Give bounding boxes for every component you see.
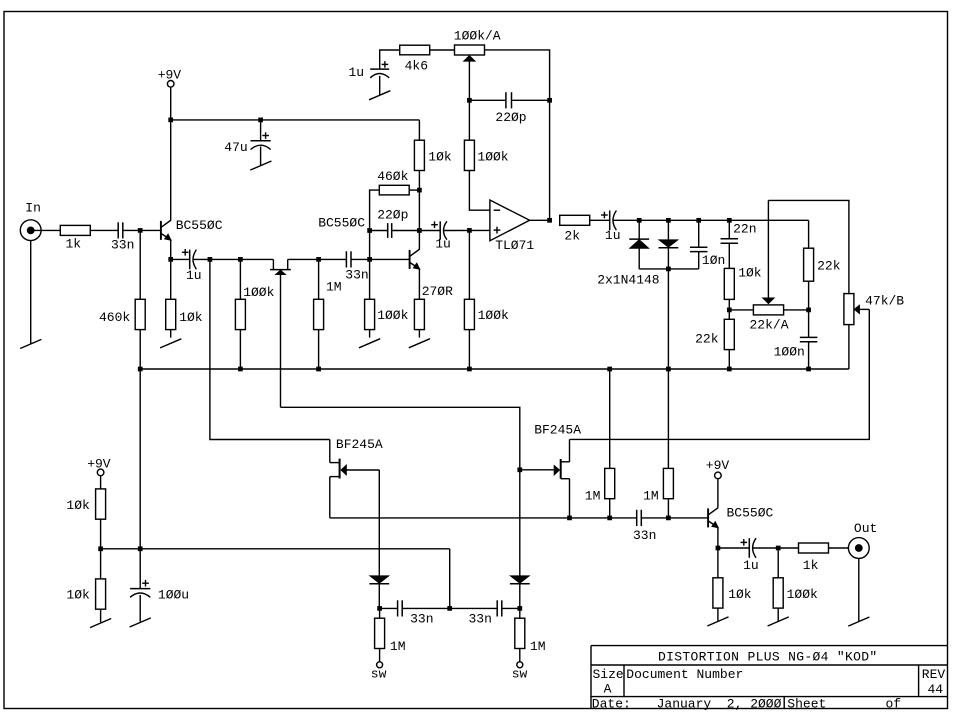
resistor 10k collector load [414,140,424,170]
svg-text:1k: 1k [803,558,819,573]
svg-text:33n: 33n [345,267,368,282]
ground 100k Q2 base [359,339,380,348]
svg-text:1ØØk: 1ØØk [478,308,509,323]
svg-text:Document Number: Document Number [626,667,743,682]
terminal sw right [512,662,528,682]
capacitor 220p feedback [387,223,389,238]
svg-text:A: A [604,682,612,697]
potentiometer 100k/A body [455,45,485,55]
wire 270R to ground [418,330,420,338]
svg-text:1M: 1M [585,489,601,504]
node junction J2 source [567,516,572,521]
node junction rail 460k [138,367,143,372]
resistor 1M sw right [515,608,525,661]
capacitor 1u output [718,538,756,558]
diode D1 1N4148 [638,220,640,239]
capacitor 22n [721,220,739,268]
wire 1k to C 33n [90,229,118,231]
wire 22k lower stubs [728,310,730,319]
wire +9V rail top [171,119,420,121]
wire clipping net [613,219,808,221]
svg-text:1ØØk: 1ØØk [377,308,408,323]
svg-text:47u: 47u [224,140,247,155]
wire tone pot right stub [784,309,809,311]
resistor 10k divider top [96,489,106,519]
node junction sw mid [447,606,452,611]
connector In [20,220,41,241]
svg-text:1ØØk: 1ØØk [243,285,274,300]
svg-text:BC55ØC: BC55ØC [727,505,774,520]
wire 22k/A wiper to 47k/B top [768,200,849,293]
resistor 4k6 [400,45,430,55]
svg-text:1Øk: 1Øk [738,266,762,281]
diode D2 1N4148 [667,220,669,239]
wire 33n to mid [402,607,450,609]
svg-text:1u: 1u [605,228,621,243]
pot 100k/A wiper arrow [463,55,475,100]
svg-text:1k: 1k [66,237,82,252]
capacitor 1u bias top [370,61,389,95]
node junction 220p left [367,228,372,233]
transistor J2 BF245A [554,439,570,518]
wire bias rail [140,368,849,370]
svg-text:TLØ71: TLØ71 [495,238,534,253]
op-amp U1 TL071 [490,200,530,241]
svg-text:1Øn: 1Øn [702,253,725,268]
svg-text:1Øk: 1Øk [66,588,90,603]
resistor 22k tone upper [804,220,814,310]
node junction diode net rail [666,367,671,372]
node junction 220p right [547,98,552,103]
resistor 270R emitter [414,299,424,329]
svg-text:1u: 1u [349,65,365,80]
resistor 1M drain right [663,468,673,518]
svg-text:1ØØk/A: 1ØØk/A [454,29,501,44]
power +9V supply 2 [706,458,730,507]
svg-text:BC55ØC: BC55ØC [318,215,365,230]
node junction Q1 base / 460k [138,228,143,233]
svg-text:22n: 22n [733,222,756,237]
resistor 2k [560,215,590,225]
node junction 1M right bottom [666,516,671,521]
wire divider tap run [101,548,450,550]
node junction op-amp output [547,218,552,223]
wire op-amp minus input [469,171,490,211]
wire J2 gate [520,469,554,471]
svg-text:BF245A: BF245A [336,437,383,452]
svg-text:January 2, 2ØØØ: January 2, 2ØØØ [657,697,782,712]
wire 220p right stub [392,230,420,232]
svg-text:sw: sw [512,666,528,681]
title block frame [591,646,948,709]
wire 1u to op-amp plus [444,229,490,231]
node junction 1M top [316,257,321,262]
transistor Q2 BC550C [409,250,411,269]
svg-text:1u: 1u [186,268,202,283]
wire 460k/220p left leg [370,190,380,259]
wire node to inline diode [240,258,273,260]
power +9V supply 3 [87,457,111,489]
wire 220p top right stub [512,99,550,101]
node junction J2 gate [517,467,522,472]
svg-text:1ØØk: 1ØØk [787,587,818,602]
capacitor 47u [251,120,271,165]
svg-text:22Øp: 22Øp [377,208,408,223]
svg-text:460k: 460k [99,310,130,325]
wire 220p right up to pot [485,50,550,100]
resistor 100k emitter net [235,259,245,369]
capacitor 33n sw left [397,600,399,616]
resistor 22k tone lower [724,319,734,349]
wire In to R 1k [31,229,61,231]
node junction Q2 collector net [417,228,422,233]
ground 100k output [768,617,789,626]
potentiometer 47k/B volume [844,294,854,325]
wire 10k top to +9V rail [418,120,420,140]
svg-text:1M: 1M [390,639,406,654]
ground wire Out [858,558,860,621]
svg-text:of: of [886,697,902,712]
resistor 10k tone [724,268,734,299]
node junction Q2 base [367,257,372,262]
diode inline bias [270,259,291,407]
svg-text:Date:: Date: [592,697,631,712]
node junction minus net / 220p [467,98,472,103]
ground In [20,339,41,348]
wire source net [330,517,637,519]
node junction bias tap [208,257,213,262]
svg-text:47k/B: 47k/B [865,294,904,309]
svg-text:Size: Size [593,667,624,682]
node junction diode bottom [666,267,671,272]
ground Out [848,617,869,626]
wire inline diode to 1M [288,258,319,260]
ground 10k Q1 emitter [160,339,181,348]
svg-text:2k: 2k [564,228,580,243]
resistor 460k base bias [135,299,145,329]
resistor 10k output [713,548,723,621]
capacitor 10n [690,220,708,269]
resistor 1k input [60,225,90,235]
ground 10k output [707,617,728,626]
capacitor 33n input [117,222,119,238]
node junction 10n [696,218,701,223]
node junction tone pot right [806,308,811,313]
resistor 1M drain left [605,369,615,518]
wire Q2 collector up [418,171,420,250]
resistor 1M emitter net [314,259,324,369]
wire 1M to 33n [319,258,347,260]
wire tone pot left stub [729,309,753,311]
wire op-amp output [530,219,550,221]
capacitor 33n output coupling [636,510,638,526]
transistor Q3 BC550C [707,508,709,527]
wire J1 gate down to D3 [378,470,380,576]
svg-text:1ØØn: 1ØØn [774,345,805,360]
svg-text:4k6: 4k6 [405,58,428,73]
node junction 100k top [238,257,243,262]
wire 10k tone bottom [728,299,730,310]
svg-text:44: 44 [928,682,944,697]
svg-text:1M: 1M [530,639,546,654]
svg-text:1Øk: 1Øk [179,310,203,325]
svg-text:33n: 33n [111,238,134,253]
capacitor 100u [130,549,150,622]
wire Q2 emitter [418,269,420,299]
svg-text:33n: 33n [410,612,433,627]
capacitor 33n sw right [496,600,498,616]
connector Out [848,538,869,559]
node junction 460k right [417,188,422,193]
wire 33n right to D4 [502,607,520,609]
svg-text:+9V: +9V [706,458,730,473]
wire 1u to 100k node [753,547,778,549]
wire J2 gate down to D4 [519,470,521,576]
node junction tone pot left [727,308,732,313]
svg-text:sw: sw [371,666,387,681]
wire 1u to node [193,258,210,260]
wire 2k right [590,219,610,221]
svg-text:46Øk: 46Øk [377,169,408,184]
wire Q1 collector [170,120,172,220]
capacitor 1u emitter [171,249,197,269]
capacitor 1u output of op-amp [601,211,616,231]
wire 47k/B wiper down [570,309,870,439]
diode D4 switch [519,575,521,577]
wire 460k bottom to rail [139,330,141,369]
svg-text:BC55ØC: BC55ØC [176,218,223,233]
ground 1u bias top [369,91,390,100]
wire 33n to Q1 base [123,229,161,231]
node junction 22k lower rail [727,367,732,372]
node junction D1 [637,218,642,223]
pot 22k/A wiper arrow [762,200,774,303]
node junction Q3 emitter [716,546,721,551]
resistor 100k Q2 base bias [365,259,375,337]
wire output up to 220p [549,100,551,220]
svg-text:BF245A: BF245A [534,422,581,437]
transistor Q1 BC550C [160,221,162,240]
resistor 10k divider bottom [96,549,106,622]
pot 47k/B wiper arrow [854,305,869,314]
wire J1 gate [347,469,380,471]
svg-text:Sheet: Sheet [787,697,826,712]
svg-text:33n: 33n [469,612,492,627]
wire 4k6 to pot [430,49,455,51]
wire 460k top stub [139,230,141,299]
svg-text:1Øk: 1Øk [428,150,452,165]
ground 270R [409,339,430,348]
wire 220p left stub [370,230,388,232]
ground wire In connector [30,241,32,344]
wire 33n to Q2 base [351,258,410,260]
node junction D4 bottom [517,606,522,611]
node junction rail 100k [238,367,243,372]
node junction 100n rail [806,367,811,372]
wire 10k divider to node [100,519,102,549]
svg-text:22k/A: 22k/A [750,317,789,332]
resistor 1M sw left [375,608,385,661]
wire 33n to Q3 base [641,517,708,519]
power +9V supply 1 [158,67,182,120]
node junction divider tap [98,546,103,551]
svg-text:1M: 1M [326,279,342,294]
capacitor 220p integrator [505,92,507,108]
ground below 47u [250,161,271,170]
svg-text:1ØØu: 1ØØu [158,588,189,603]
node junction 22n [727,218,732,223]
svg-text:1u: 1u [435,237,451,252]
wire Q3 emitter [717,528,719,549]
wire 47k/B bottom to rail [848,325,850,369]
node junction rail 1M [316,367,321,372]
wire 100k minus top [468,100,470,140]
node junction 100u top [138,546,143,551]
wire rail down to divider [139,369,141,549]
wire 4k6 left leg [380,50,400,69]
node junction op-amp plus / 100k [467,228,472,233]
ground 10k divider [90,619,111,628]
svg-text:In: In [25,201,41,216]
resistor 10k Q1 emitter [166,259,176,337]
resistor 100k output [773,548,783,621]
wire 460k right [409,189,419,191]
svg-text:1M: 1M [643,489,659,504]
svg-text:1ØØk: 1ØØk [477,150,508,165]
capacitor 33n interstage [345,251,347,267]
terminal sw left [371,662,387,682]
potentiometer 22k/A body [753,305,783,315]
transistor J1 BF245A [330,440,347,518]
svg-text:27ØR: 27ØR [422,284,453,299]
node junction Q1 emitter [168,257,173,262]
svg-text:Out: Out [854,521,877,536]
resistor 460k feedback [379,185,409,195]
wire Q1 emitter [170,240,172,259]
svg-text:22Øp: 22Øp [495,110,526,125]
node junction rail 100k plus [467,367,472,372]
wire diode down to JFET gate run [281,407,520,470]
wire node to 100k [210,258,241,260]
svg-text:DISTORTION PLUS NG-Ø4 "KOD": DISTORTION PLUS NG-Ø4 "KOD" [658,649,878,664]
svg-text:2x1N4148: 2x1N4148 [597,273,659,288]
node junction +9V rail / Q1 collector [168,118,173,123]
svg-text:22k: 22k [695,332,719,347]
wire bias tap down to JFET drain [210,259,330,439]
resistor 100k op-amp plus to rail [464,230,474,369]
resistor 1k output [778,543,848,553]
svg-text:22k: 22k [817,259,841,274]
node junction D2 [666,218,671,223]
node junction output load [776,546,781,551]
capacitor 100n [800,310,818,369]
wire diode net to rail [667,269,669,469]
wire tap down to 33n mid [449,549,451,609]
node junction 47u top [258,118,263,123]
svg-text:REV: REV [922,667,946,682]
wire D3 to 33n [380,607,398,609]
svg-text:1Øk: 1Øk [66,498,90,513]
node junction 1M left bottom [607,516,612,521]
wire diode bottom link [639,268,699,270]
capacitor 1u op-amp input [419,221,447,239]
node junction rail 1M left [607,367,612,372]
node junction D3 bottom [377,606,382,611]
wire mid to 33n right [450,607,498,609]
ground 100u [130,618,151,627]
svg-text:1u: 1u [743,558,759,573]
resistor 100k op-amp minus [464,140,474,170]
svg-text:1Øk: 1Øk [728,587,752,602]
svg-text:33n: 33n [633,528,656,543]
diode D3 switch [378,575,380,577]
wire 220p top left stub [469,99,506,101]
